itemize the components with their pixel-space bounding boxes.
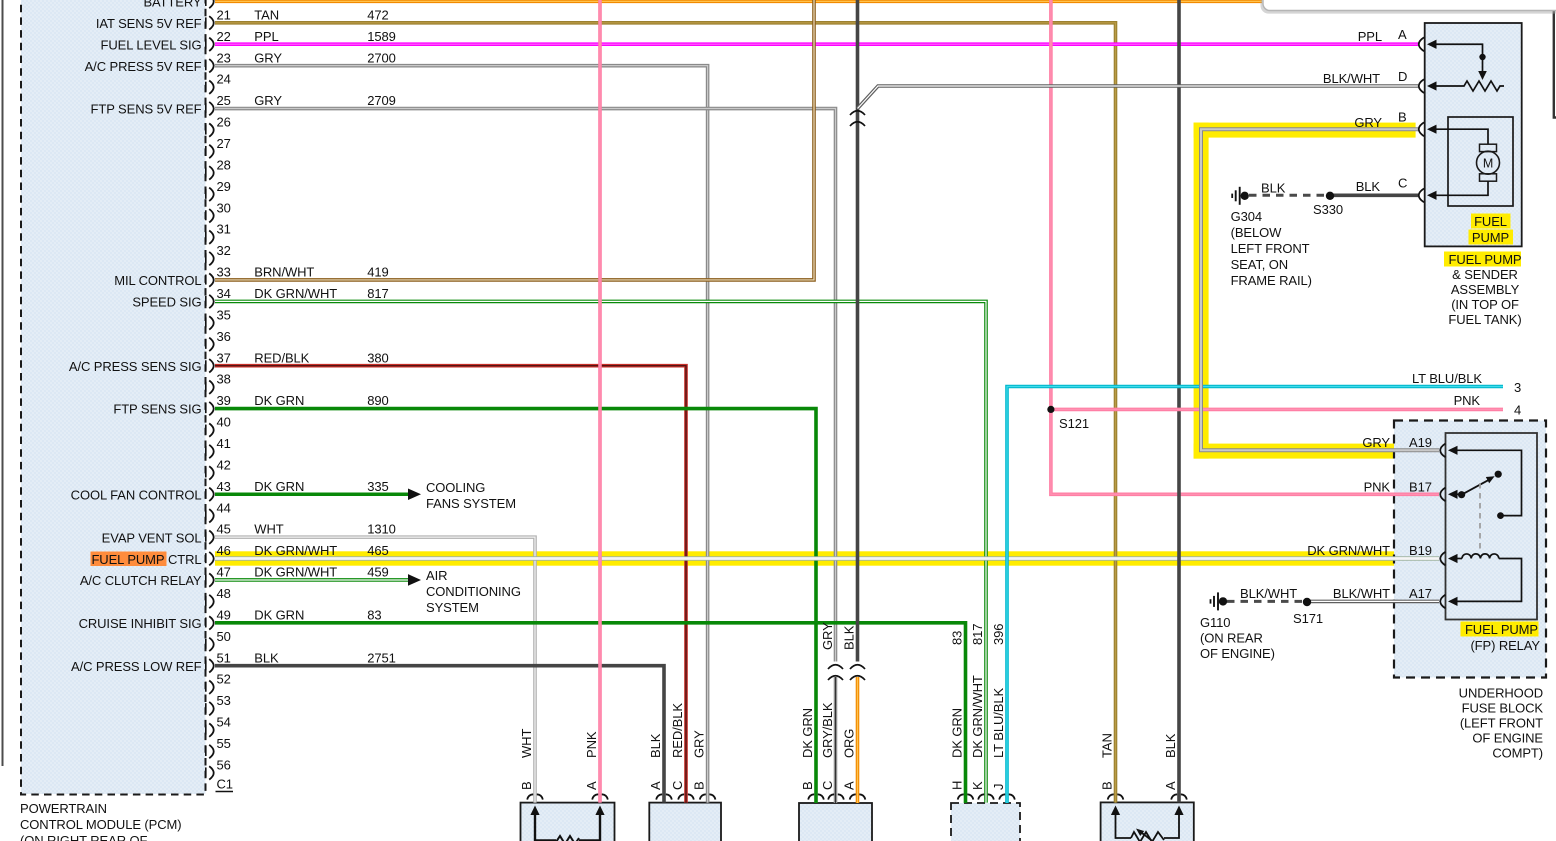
svg-text:PNK: PNK [1454, 393, 1481, 408]
block3 pins B C A [808, 794, 865, 799]
svg-text:PPL: PPL [1358, 29, 1382, 44]
wire PNK vertical through S121 to relay B17 [1051, 0, 1439, 494]
svg-text:(ON REAR: (ON REAR [1200, 631, 1263, 646]
svg-text:45: 45 [217, 522, 231, 537]
wire continuation break on BLK vertical [850, 111, 865, 126]
svg-text:FRAME RAIL): FRAME RAIL) [1231, 273, 1312, 288]
svg-text:42: 42 [217, 457, 231, 472]
label BLK/WHT pin D [1323, 69, 1407, 86]
wire GRY 2700 AC press 5V ref [215, 66, 708, 803]
svg-text:41: 41 [217, 436, 231, 451]
svg-text:OF ENGINE): OF ENGINE) [1200, 646, 1275, 661]
svg-text:A19: A19 [1409, 435, 1432, 450]
label GRY pin A19 [1362, 435, 1431, 450]
svg-text:COMPT): COMPT) [1492, 746, 1543, 761]
svg-text:44: 44 [217, 500, 231, 515]
svg-text:43: 43 [217, 479, 231, 494]
wire BLK vertical to sender pin A [1177, 0, 1181, 802]
svg-text:SPEED SIG: SPEED SIG [132, 295, 201, 310]
svg-text:38: 38 [217, 372, 231, 387]
svg-text:396: 396 [991, 624, 1006, 645]
wire BRN/WHT 419 MIL control [215, 0, 814, 280]
svg-text:36: 36 [217, 329, 231, 344]
wire TAN 472 pin21 to sender [215, 23, 1116, 803]
EVAP canister vent solenoid connector block [521, 803, 615, 841]
svg-text:2709: 2709 [367, 93, 396, 108]
fuel pump motor M [1436, 144, 1500, 195]
svg-text:B: B [800, 781, 815, 790]
wire ORG to block3 pin A [856, 677, 860, 803]
splice S121 [1047, 406, 1054, 413]
svg-text:DK GRN/WHT: DK GRN/WHT [970, 675, 985, 758]
label FUEL PUMP (FP) RELAY [1461, 622, 1541, 654]
label BLK pin C [1356, 176, 1408, 195]
fuel pump pin A terminal [1419, 37, 1487, 80]
svg-text:BRN/WHT: BRN/WHT [254, 265, 314, 280]
svg-text:A/C PRESS LOW REF: A/C PRESS LOW REF [71, 659, 202, 674]
svg-text:B: B [1398, 110, 1407, 125]
fuel pump pin B terminal [1419, 122, 1488, 144]
svg-text:A/C PRESS 5V REF: A/C PRESS 5V REF [85, 59, 202, 74]
splice S330 [1326, 192, 1334, 200]
label S330 [1313, 202, 1343, 217]
wire BLK dashed G304 to S330 [1249, 194, 1326, 197]
svg-text:21: 21 [217, 7, 231, 22]
svg-text:1310: 1310 [367, 522, 396, 537]
svg-text:FANS SYSTEM: FANS SYSTEM [426, 496, 516, 511]
svg-text:GRY: GRY [820, 622, 835, 650]
svg-text:C: C [670, 781, 685, 790]
svg-text:COOLING: COOLING [426, 480, 485, 495]
svg-text:LT BLU/BLK: LT BLU/BLK [1412, 371, 1482, 386]
svg-text:CONDITIONING: CONDITIONING [426, 584, 521, 599]
svg-text:40: 40 [217, 415, 231, 430]
wire PPL 1589 fuel level signal [215, 42, 1418, 46]
label LT BLU/BLK terminal 3 [1412, 371, 1521, 395]
svg-text:B: B [692, 781, 707, 790]
svg-text:26: 26 [217, 115, 231, 130]
wire BLK/WHT dashed G110 to S171 [1227, 600, 1303, 603]
svg-text:(BELOW: (BELOW [1231, 225, 1283, 240]
PCM pin function labels [69, 0, 202, 674]
relay pin A19 terminal and switch contact [1440, 444, 1521, 519]
svg-text:SEAT, ON: SEAT, ON [1231, 257, 1288, 272]
svg-text:46: 46 [217, 543, 231, 558]
svg-text:A: A [648, 781, 663, 790]
svg-text:DK GRN/WHT: DK GRN/WHT [254, 543, 337, 558]
arrow to cooling fans system [408, 488, 421, 500]
svg-text:DK GRN: DK GRN [254, 479, 304, 494]
sender connector block 5 [1101, 802, 1194, 841]
svg-text:380: 380 [367, 350, 388, 365]
svg-text:S330: S330 [1313, 202, 1343, 217]
arrow to air conditioning system [408, 574, 421, 586]
svg-text:33: 33 [217, 265, 231, 280]
svg-text:G304: G304 [1231, 209, 1262, 224]
svg-text:459: 459 [367, 565, 388, 580]
wire PNK vertical to EVAP solenoid pin A [598, 0, 602, 803]
svg-text:LT BLU/BLK: LT BLU/BLK [991, 688, 1006, 758]
relay pin B19 terminal and coil [1440, 552, 1521, 602]
svg-text:CONTROL MODULE (PCM): CONTROL MODULE (PCM) [20, 817, 181, 832]
svg-text:47: 47 [217, 565, 231, 580]
svg-text:FUEL: FUEL [1474, 214, 1507, 229]
sensor connector block 3 [799, 803, 872, 841]
fuel level sender resistor [1436, 81, 1504, 91]
wire RED/BLK 380 AC press sensor signal [215, 366, 686, 803]
svg-text:472: 472 [367, 7, 388, 22]
svg-text:2751: 2751 [367, 650, 396, 665]
svg-text:FTP SENS 5V REF: FTP SENS 5V REF [91, 102, 202, 117]
svg-text:MIL CONTROL: MIL CONTROL [114, 273, 201, 288]
highlight band GRY fuel pump feed [1194, 123, 1438, 459]
svg-text:49: 49 [217, 607, 231, 622]
wire BLK splice S330 to fuel pump pin C [1332, 194, 1418, 198]
svg-text:52: 52 [217, 672, 231, 687]
svg-text:FUEL PUMP: FUEL PUMP [91, 552, 164, 567]
rotated circuit numbers 83 817 396 [950, 624, 1007, 645]
svg-text:GRY: GRY [254, 93, 282, 108]
svg-text:GRY: GRY [1362, 435, 1390, 450]
sensor connector block 2 [649, 803, 721, 841]
svg-text:34: 34 [217, 286, 231, 301]
svg-text:PNK: PNK [1364, 480, 1391, 495]
svg-text:890: 890 [367, 393, 388, 408]
svg-text:PNK: PNK [584, 731, 599, 758]
svg-text:BLK/WHT: BLK/WHT [1333, 586, 1390, 601]
svg-text:DK GRN: DK GRN [950, 708, 965, 758]
PCM pin numbers 21-56 [216, 7, 234, 791]
svg-text:32: 32 [217, 243, 231, 258]
svg-text:CTRL: CTRL [168, 552, 202, 567]
svg-text:27: 27 [217, 136, 231, 151]
svg-text:S121: S121 [1059, 416, 1089, 431]
svg-text:AIR: AIR [426, 568, 447, 583]
label G110 location [1200, 615, 1275, 661]
svg-text:TAN: TAN [254, 7, 279, 22]
svg-text:PPL: PPL [254, 29, 278, 44]
svg-text:FUEL PUMP: FUEL PUMP [1448, 252, 1521, 267]
svg-text:ASSEMBLY: ASSEMBLY [1451, 282, 1520, 297]
label BLK on dashed ground wire [1261, 181, 1286, 196]
label powertrain control module [20, 801, 181, 841]
svg-text:54: 54 [217, 715, 231, 730]
svg-text:WHT: WHT [519, 729, 534, 758]
svg-text:A: A [584, 781, 599, 790]
label GRY pin B [1354, 110, 1406, 131]
wire DK GRN 335 cooling fan control [215, 492, 409, 496]
svg-text:817: 817 [970, 624, 985, 645]
ground G304 [1232, 187, 1249, 205]
svg-text:EVAP VENT SOL: EVAP VENT SOL [102, 530, 202, 545]
label BLK/WHT on dashed ground wire G110 [1240, 586, 1297, 601]
label PNK pin B17 [1364, 480, 1432, 495]
fuse block connector block 4 [951, 803, 1020, 841]
svg-text:83: 83 [367, 607, 381, 622]
fuel pump and sender assembly block [1425, 23, 1522, 246]
relay actuator dashed link [1479, 483, 1481, 549]
wire ORG battery feed pin20 [215, 0, 1262, 3]
label PPL pin A [1358, 27, 1407, 44]
wire WHT 1310 EVAP vent solenoid [215, 537, 535, 802]
relay pin A17 terminal [1440, 595, 1457, 609]
splice S171 [1303, 598, 1311, 606]
svg-text:31: 31 [217, 222, 231, 237]
svg-text:DK GRN/WHT: DK GRN/WHT [254, 565, 337, 580]
wire BLK/WHT to fuel pump pin D [858, 86, 1419, 109]
svg-text:A/C PRESS SENS SIG: A/C PRESS SENS SIG [69, 359, 202, 374]
svg-text:BLK/WHT: BLK/WHT [1240, 586, 1297, 601]
svg-text:J: J [991, 784, 1006, 790]
wire BLK vertical upper [856, 0, 860, 662]
svg-text:FUSE BLOCK: FUSE BLOCK [1462, 701, 1544, 716]
svg-text:S171: S171 [1293, 611, 1323, 626]
svg-text:465: 465 [367, 543, 388, 558]
svg-text:SYSTEM: SYSTEM [426, 600, 479, 615]
svg-text:A: A [1398, 27, 1407, 42]
svg-text:1589: 1589 [367, 29, 396, 44]
wire DK GRN 890 FTP sens signal [215, 409, 816, 803]
svg-text:DK GRN: DK GRN [254, 607, 304, 622]
svg-text:2700: 2700 [367, 50, 396, 65]
svg-text:POWERTRAIN: POWERTRAIN [20, 801, 107, 816]
underhood fuse block (dashed) [1394, 421, 1546, 678]
wire LT BLU/BLK 396 [1007, 387, 1503, 804]
svg-text:FUEL PUMP: FUEL PUMP [1465, 622, 1538, 637]
svg-text:50: 50 [217, 629, 231, 644]
label air conditioning system [426, 568, 521, 615]
svg-text:24: 24 [217, 72, 231, 87]
svg-text:WHT: WHT [254, 522, 283, 537]
svg-text:B: B [519, 781, 534, 790]
label underhood fuse block [1459, 686, 1544, 761]
label PNK terminal 4 [1454, 393, 1522, 418]
label cooling fans system [426, 480, 516, 511]
svg-text:BLK: BLK [1163, 733, 1178, 758]
wire BLK 2751 AC press low ref [215, 666, 664, 803]
svg-text:29: 29 [217, 179, 231, 194]
wire GRY fuel pump pin B to relay A19 [1201, 129, 1439, 450]
svg-text:GRY: GRY [692, 730, 707, 758]
svg-text:DK GRN: DK GRN [254, 393, 304, 408]
svg-text:BLK: BLK [1356, 179, 1381, 194]
svg-text:(IN TOP OF: (IN TOP OF [1451, 297, 1519, 312]
svg-text:FUEL TANK): FUEL TANK) [1448, 312, 1521, 327]
fuel pump inner housing [1448, 117, 1513, 206]
svg-text:817: 817 [367, 286, 388, 301]
svg-text:ORG: ORG [842, 729, 857, 758]
svg-text:23: 23 [217, 50, 231, 65]
rotated pin letters bottom connectors [519, 781, 1178, 790]
svg-text:DK GRN: DK GRN [800, 708, 815, 758]
wire DK GRN/WHT 459 AC clutch relay [215, 578, 409, 582]
svg-text:LEFT FRONT: LEFT FRONT [1231, 241, 1310, 256]
svg-text:A: A [842, 781, 857, 790]
wire DK GRN/WHT 465 fuel pump control [215, 556, 1439, 561]
svg-text:A17: A17 [1409, 586, 1432, 601]
svg-text:83: 83 [950, 631, 965, 645]
label G304 location [1231, 209, 1312, 288]
svg-text:COOL FAN CONTROL: COOL FAN CONTROL [71, 487, 202, 502]
svg-text:3: 3 [1514, 380, 1521, 395]
svg-text:RED/BLK: RED/BLK [254, 350, 309, 365]
svg-text:BATTERY: BATTERY [143, 0, 201, 10]
svg-text:BLK: BLK [1261, 181, 1286, 196]
svg-text:DK GRN/WHT: DK GRN/WHT [1307, 543, 1390, 558]
svg-text:TAN: TAN [1100, 733, 1115, 758]
svg-text:BLK: BLK [254, 650, 279, 665]
fuel pump relay inner box [1446, 433, 1538, 620]
svg-text:GRY: GRY [254, 50, 282, 65]
wire GRY 2709 FTP sens 5V ref [215, 109, 836, 662]
PCM connector C1 module block [21, 0, 206, 795]
svg-text:B: B [1100, 781, 1115, 790]
wire PNK branch to terminal 4 [1051, 408, 1503, 412]
label S171 [1293, 611, 1323, 626]
svg-text:H: H [950, 781, 965, 790]
svg-text:GRY: GRY [1354, 115, 1382, 130]
svg-text:22: 22 [217, 29, 231, 44]
svg-text:35: 35 [217, 307, 231, 322]
fuel pump pin C terminal [1419, 189, 1437, 203]
wire DK GRN/WHT 817 speed signal [215, 301, 986, 802]
label DK GRN/WHT pin B19 [1307, 543, 1432, 558]
svg-text:28: 28 [217, 157, 231, 172]
svg-text:FUEL LEVEL SIG: FUEL LEVEL SIG [101, 37, 202, 52]
svg-text:C: C [1398, 176, 1407, 191]
svg-text:C: C [820, 781, 835, 790]
svg-text:BLK: BLK [842, 625, 857, 650]
fuel pump pin D terminal [1419, 79, 1437, 93]
svg-text:GRY/BLK: GRY/BLK [820, 702, 835, 758]
block2 pins A C B [656, 794, 715, 799]
svg-text:48: 48 [217, 586, 231, 601]
svg-text:30: 30 [217, 200, 231, 215]
svg-text:G110: G110 [1200, 615, 1230, 630]
relay pin B17 terminal and switch blade [1440, 471, 1502, 502]
svg-text:B19: B19 [1409, 543, 1432, 558]
rotated wire color labels at bottom connectors [519, 675, 1178, 758]
svg-text:A: A [1163, 781, 1178, 790]
svg-text:55: 55 [217, 736, 231, 751]
rotated labels GRY and BLK above breaks [820, 622, 857, 650]
svg-text:419: 419 [367, 265, 388, 280]
svg-text:56: 56 [217, 757, 231, 772]
svg-text:(FP) RELAY: (FP) RELAY [1470, 638, 1540, 653]
svg-text:FTP SENS SIG: FTP SENS SIG [113, 402, 201, 417]
svg-text:D: D [1398, 69, 1407, 84]
break GRY to GRY/BLK [828, 663, 843, 680]
break BLK to ORG [850, 663, 865, 680]
svg-text:PUMP: PUMP [1472, 230, 1509, 245]
svg-text:K: K [970, 781, 985, 790]
svg-text:(LEFT FRONT: (LEFT FRONT [1460, 716, 1543, 731]
label FUEL PUMP CTRL highlighted [91, 552, 202, 567]
fuel sender pins B and A with rheostat [1108, 794, 1187, 841]
svg-text:& SENDER: & SENDER [1452, 267, 1518, 282]
label fuel pump and sender assembly [1444, 252, 1522, 328]
ground G110 [1211, 592, 1228, 610]
svg-text:335: 335 [367, 479, 388, 494]
svg-text:25: 25 [217, 93, 231, 108]
overlay popup panel [1261, 0, 1556, 14]
label BLK/WHT pin A17 [1333, 586, 1432, 601]
svg-text:UNDERHOOD: UNDERHOOD [1459, 686, 1543, 701]
svg-text:53: 53 [217, 693, 231, 708]
label FUEL PUMP inside block [1469, 214, 1514, 246]
wire at left edge [2, 0, 4, 766]
svg-text:C1: C1 [217, 777, 233, 792]
svg-text:39: 39 [217, 393, 231, 408]
partial component at right edge [1554, 10, 1556, 118]
EVAP solenoid pins B and A [527, 794, 608, 841]
svg-text:OF ENGINE: OF ENGINE [1472, 731, 1543, 746]
wire BLK/WHT S171 to relay A17 [1309, 600, 1439, 604]
svg-text:RED/BLK: RED/BLK [670, 703, 685, 758]
svg-text:51: 51 [217, 650, 231, 665]
label S121 [1059, 416, 1089, 431]
wire GRY/BLK to block3 pin C [834, 677, 838, 803]
svg-text:BLK: BLK [648, 733, 663, 758]
svg-text:BLK/WHT: BLK/WHT [1323, 71, 1380, 86]
svg-text:37: 37 [217, 350, 231, 365]
svg-text:A/C CLUTCH RELAY: A/C CLUTCH RELAY [80, 573, 202, 588]
svg-text:IAT SENS 5V REF: IAT SENS 5V REF [96, 16, 202, 31]
PCM pin terminals [206, 0, 214, 780]
highlight band fuel pump ctrl circuit 465 [215, 551, 1439, 565]
svg-text:DK GRN/WHT: DK GRN/WHT [254, 286, 337, 301]
block4 pins H K J [958, 794, 1015, 799]
wire color and circuit number labels [254, 7, 396, 665]
svg-text:B17: B17 [1409, 480, 1432, 495]
wire DK GRN 83 cruise inhibit [215, 623, 966, 803]
svg-text:CRUISE INHIBIT SIG: CRUISE INHIBIT SIG [79, 616, 202, 631]
svg-text:4: 4 [1514, 403, 1521, 418]
svg-text:M: M [1483, 156, 1493, 170]
svg-text:(ON RIGHT REAR OF: (ON RIGHT REAR OF [20, 833, 148, 841]
